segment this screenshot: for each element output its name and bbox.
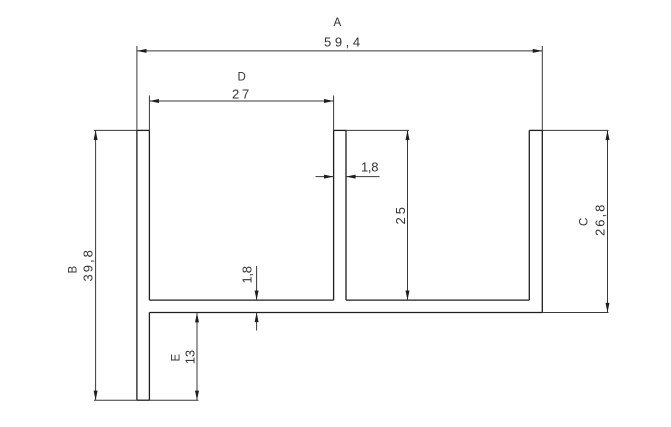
dimension D extension line right (333, 96, 335, 131)
dimension B extension line bottom / leg bottom extension (94, 399, 199, 401)
profile right wall outer face (541, 130, 543, 312)
dimension 1,8 base lower tail (256, 313, 258, 331)
svg-text:27: 27 (232, 87, 252, 102)
profile right wall top edge (529, 129, 542, 131)
profile base top edge left span (149, 299, 333, 301)
dimension C line (607, 130, 609, 312)
profile left wall inner face lower (leg) (148, 313, 150, 401)
profile base bottom edge (149, 312, 542, 314)
dimension C arrow bottom (606, 303, 610, 313)
dimension 25 arrow bottom (406, 291, 410, 301)
profile left wall outer face (136, 130, 138, 400)
dimension 1,8 base arrow upper (points down) (255, 291, 259, 301)
profile left wall top edge (137, 129, 150, 131)
dimension 1,8 wall arrow right (points left) (346, 175, 356, 179)
dimension 1,8 wall left tail (316, 176, 334, 178)
svg-text:26,8: 26,8 (593, 203, 608, 236)
svg-text:C: C (579, 218, 591, 226)
dimension C extension line top (542, 129, 608, 131)
dimension A line (137, 50, 542, 52)
svg-text:13: 13 (183, 350, 198, 364)
dimension 1,8 base upper tail (256, 266, 258, 300)
svg-text:D: D (238, 72, 246, 84)
svg-text:A: A (334, 17, 342, 29)
profile middle wall top edge (334, 129, 346, 131)
svg-text:B: B (68, 266, 80, 274)
profile left wall inner face upper (148, 130, 150, 300)
svg-text:59,4: 59,4 (324, 35, 364, 50)
dimension D arrow right (324, 99, 334, 103)
profile middle wall left face (333, 130, 335, 300)
profile leg bottom edge (137, 399, 150, 401)
svg-text:1,8: 1,8 (361, 160, 378, 175)
dimension 1,8 wall arrow left (points right) (324, 175, 334, 179)
dimension 1,8 base arrow lower (points up) (255, 313, 259, 323)
profile right wall inner face (528, 130, 530, 300)
svg-text:E: E (171, 354, 183, 362)
dimension C arrow top (606, 130, 610, 140)
dimension A arrow right (533, 49, 543, 53)
dimension 25 extension line top (346, 129, 409, 131)
dimension B arrow bottom (94, 391, 98, 401)
dimension E arrow bottom (195, 391, 199, 401)
dimension B arrow top (94, 130, 98, 140)
profile middle wall right face (345, 130, 347, 300)
dimension A extension line right (541, 46, 543, 130)
dimension E line (196, 313, 198, 400)
svg-text:1,8: 1,8 (240, 266, 255, 283)
dimension D extension line left (148, 96, 150, 131)
profile base top edge right span (346, 299, 529, 301)
dimension 1,8 wall right tail (346, 176, 380, 178)
dimension A arrow left (137, 49, 147, 53)
dimension 25 line (407, 130, 409, 300)
dimension B line (95, 130, 97, 400)
dimension 25 arrow top (406, 130, 410, 140)
dimension D arrow left (149, 99, 159, 103)
svg-text:39,8: 39,8 (81, 248, 96, 281)
dimension A extension line left (136, 46, 138, 130)
dimension D line (149, 100, 333, 102)
dimension B extension line top (94, 129, 137, 131)
svg-text:25: 25 (393, 204, 408, 224)
dimension C extension line bottom (542, 312, 608, 314)
dimension E arrow top (195, 313, 199, 323)
